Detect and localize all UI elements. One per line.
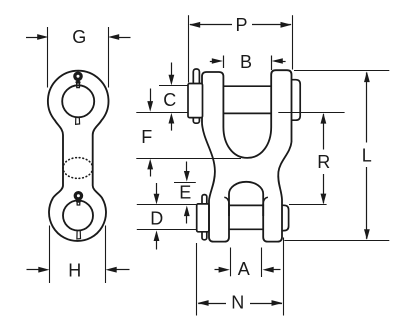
- svg-text:B: B: [240, 52, 252, 72]
- svg-text:A: A: [238, 259, 250, 279]
- svg-text:D: D: [150, 208, 163, 228]
- svg-text:L: L: [362, 145, 372, 165]
- svg-text:E: E: [179, 183, 191, 203]
- svg-text:G: G: [72, 27, 86, 47]
- svg-text:C: C: [163, 90, 176, 110]
- svg-text:H: H: [68, 260, 81, 280]
- svg-text:N: N: [231, 293, 244, 313]
- svg-text:P: P: [235, 15, 247, 35]
- svg-text:F: F: [141, 127, 152, 147]
- svg-text:R: R: [317, 152, 330, 172]
